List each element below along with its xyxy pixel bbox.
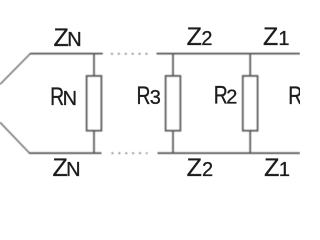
svg-text:Z: Z xyxy=(264,154,279,182)
svg-text:2: 2 xyxy=(226,87,237,109)
node label Z1 (top) xyxy=(263,23,290,51)
svg-text:1: 1 xyxy=(279,159,290,181)
resistor R3 xyxy=(166,54,181,154)
node label ZN (top) xyxy=(53,24,81,52)
resistor R2 xyxy=(243,54,258,154)
svg-text:N: N xyxy=(63,88,77,110)
svg-text:1: 1 xyxy=(278,28,289,50)
value label R3 xyxy=(136,82,160,110)
svg-text:3: 3 xyxy=(150,87,161,109)
wire: top rail right segment xyxy=(157,53,301,55)
node label Z2 (bottom) xyxy=(187,154,213,182)
svg-text:Z: Z xyxy=(187,23,202,51)
svg-text:R: R xyxy=(288,81,300,109)
svg-text:Z: Z xyxy=(187,154,202,182)
svg-text:2: 2 xyxy=(201,28,212,50)
svg-text:N: N xyxy=(67,29,81,51)
svg-text:N: N xyxy=(66,159,80,181)
svg-text:Z: Z xyxy=(263,23,278,51)
wire: top rail left segment xyxy=(30,53,103,55)
node label Z2 (top) xyxy=(187,23,213,51)
svg-text:R: R xyxy=(136,82,150,110)
wire: top rail dotted continuation xyxy=(111,53,148,55)
node label Z1 (bottom) xyxy=(264,154,290,182)
svg-text:2: 2 xyxy=(202,159,213,181)
resistor RN xyxy=(87,54,102,154)
wire: bottom rail left segment xyxy=(29,152,102,154)
value label RN xyxy=(50,83,77,111)
wire: upper-left diagonal xyxy=(0,54,30,85)
value label R1 (partially visible at right edge) xyxy=(288,81,302,109)
node label ZN (bottom) xyxy=(53,154,81,182)
wire: bottom rail right segment xyxy=(158,152,301,154)
wire: lower-left diagonal xyxy=(0,122,30,153)
value label R2 xyxy=(214,81,238,109)
wire: bottom rail dotted continuation xyxy=(112,152,148,154)
